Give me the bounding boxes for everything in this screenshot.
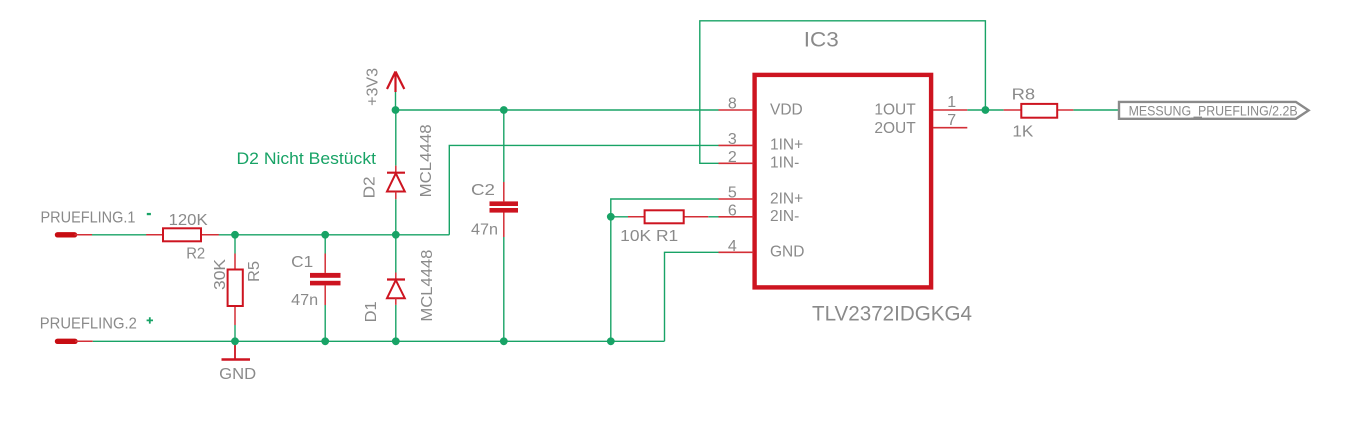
pin 3 stub	[719, 144, 754, 146]
junction at R5 top	[231, 231, 239, 239]
resistor R5 body	[228, 270, 243, 307]
wire: C1 top green lead	[324, 235, 326, 254]
wire: net 2IN+ horizontal from pin 5 and vertical drop	[611, 199, 719, 341]
wire: net 1IN+ vertical riser and horizontal to pin 3	[449, 145, 718, 234]
polarity mark minus	[147, 213, 151, 215]
svg-text:GND: GND	[219, 366, 256, 383]
svg-text:2: 2	[728, 149, 737, 166]
svg-text:2IN-: 2IN-	[770, 208, 799, 225]
svg-text:30K: 30K	[212, 259, 229, 290]
resistor R2 body	[163, 228, 201, 241]
svg-text:120K: 120K	[169, 212, 208, 229]
svg-text:R2: R2	[186, 246, 205, 263]
pin 1 stub (1OUT)	[933, 109, 967, 111]
pin 5 stub	[719, 198, 754, 200]
resistor R5 leads	[234, 254, 236, 270]
junction at C2 bottom	[500, 337, 508, 345]
wire: R1 right lead green segment to pin 6	[708, 216, 718, 218]
svg-text:1OUT: 1OUT	[874, 102, 916, 119]
wire: C2 bottom green lead	[503, 237, 505, 341]
wire: GND net riser to pin 4	[665, 252, 719, 341]
svg-text:TLV2372IDGKG4: TLV2372IDGKG4	[812, 302, 972, 325]
wire: output net 1OUT to R8	[967, 109, 1003, 111]
svg-text:1IN+: 1IN+	[770, 137, 803, 154]
junction at C1 top	[321, 231, 329, 239]
svg-text:MCL4448: MCL4448	[418, 124, 435, 197]
svg-text:PRUEFLING.2: PRUEFLING.2	[40, 316, 137, 333]
wire: D1 top green lead	[395, 235, 397, 273]
wire: R8 to MESSUNG_PRUEFLING flag	[1073, 109, 1127, 111]
pin 6 stub	[719, 216, 754, 218]
svg-text:VDD: VDD	[770, 101, 803, 118]
wire: +3V3 shaft green segment	[395, 92, 397, 110]
wire: D2 top green lead	[395, 110, 397, 166]
resistor R2 leads	[146, 234, 163, 236]
svg-text:6: 6	[728, 202, 737, 219]
svg-text:2OUT: 2OUT	[874, 120, 916, 137]
svg-text:GND: GND	[770, 244, 804, 261]
capacitor C1 leads	[324, 254, 326, 273]
pin 8 VDD stub	[719, 109, 754, 111]
capacitor C2 plates	[490, 201, 519, 206]
svg-text:7: 7	[947, 112, 956, 129]
ground symbol GND	[234, 341, 236, 359]
svg-text:5: 5	[728, 185, 737, 202]
diode D1 (clamp to GND)	[387, 273, 405, 305]
wire: D2 bottom green lead	[395, 199, 397, 235]
label MESSUNG_PRUEFLING/2.2B underscore mark	[1194, 117, 1203, 119]
junction at GND symbol	[231, 337, 239, 345]
wire: PRUEFLING.2 red thin segment	[75, 340, 93, 342]
capacitor C1 plates	[310, 273, 341, 278]
svg-text:2IN+: 2IN+	[770, 190, 803, 207]
svg-text:8: 8	[728, 96, 737, 113]
svg-text:R5: R5	[246, 261, 263, 282]
junction at C2 top	[500, 106, 508, 114]
polarity mark plus	[147, 317, 153, 323]
wire: C2 top green lead	[503, 110, 505, 182]
svg-text:1IN-: 1IN-	[770, 155, 799, 172]
svg-text:PRUEFLING.1: PRUEFLING.1	[41, 209, 136, 226]
pin 2 stub	[719, 162, 754, 164]
svg-text:+3V3: +3V3	[365, 68, 382, 106]
diode D2 (clamp to +3V3)	[387, 166, 405, 200]
svg-text:1K: 1K	[1012, 123, 1033, 140]
junction at D1/D2 mid	[392, 231, 400, 239]
wire: C1 bottom green lead	[324, 305, 326, 341]
svg-text:R8: R8	[1012, 87, 1036, 104]
wire: D1 bottom green lead	[395, 305, 397, 341]
junction at 2IN+ drop bottom	[607, 337, 615, 345]
node: PRUEFLING.1 wire stub (thick)	[58, 232, 75, 237]
junction at D1 bottom	[392, 337, 400, 345]
wire: VDD net horizontal (from +3V3 to pin 8)	[396, 109, 719, 111]
wire: bottom GND net horizontal	[93, 340, 665, 342]
wire: R5 top green lead	[234, 235, 236, 254]
pin 7 stub (2OUT, unconnected)	[933, 127, 967, 129]
wire: R5 bottom green lead	[234, 325, 236, 341]
svg-text:1: 1	[947, 94, 956, 111]
wire: feedback net 1OUT to 1IN- (up, across top, down)	[700, 21, 986, 164]
svg-text:3: 3	[728, 131, 737, 148]
svg-text:C1: C1	[291, 254, 313, 271]
wire: R1 left lead green segment	[611, 216, 628, 218]
resistor R8 body	[1021, 104, 1057, 118]
node: PRUEFLING.2 wire stub (thick)	[58, 339, 76, 344]
power symbol +3V3 arrow	[387, 72, 404, 93]
wire: net PRUEFLING.1 horizontal to R2 and up to pin 3	[92, 234, 449, 236]
svg-text:IC3: IC3	[804, 29, 839, 52]
svg-text:47n: 47n	[471, 221, 498, 238]
svg-text:D1: D1	[363, 301, 380, 322]
junction at +3V3 / VDD	[392, 106, 400, 114]
junction at C1 bottom	[321, 337, 329, 345]
pin 4 stub	[719, 251, 754, 253]
svg-text:D2: D2	[361, 176, 378, 198]
svg-text:D2 Nicht Bestückt: D2 Nicht Bestückt	[237, 150, 377, 168]
svg-text:MESSUNG_PRUEFLING/2.2B: MESSUNG_PRUEFLING/2.2B	[1129, 103, 1298, 119]
op-amp IC3 box	[755, 75, 932, 288]
resistor R1 leads	[628, 216, 645, 218]
net flag MESSUNG_PRUEFLING/2.2B outline	[1119, 102, 1309, 119]
svg-text:C2: C2	[471, 182, 495, 199]
svg-text:4: 4	[728, 238, 737, 255]
resistor R1 body	[645, 210, 684, 223]
svg-text:MCL4448: MCL4448	[419, 249, 436, 321]
wire: PRUEFLING.1 red thin segment	[75, 234, 93, 236]
junction at 1OUT / R8 / feedback	[982, 106, 990, 114]
resistor R8 leads	[1004, 109, 1022, 111]
svg-text:47n: 47n	[291, 292, 318, 309]
junction at R1 left / 2IN+	[607, 213, 615, 221]
capacitor C2 leads	[503, 182, 505, 201]
svg-text:10K R1: 10K R1	[620, 228, 678, 245]
